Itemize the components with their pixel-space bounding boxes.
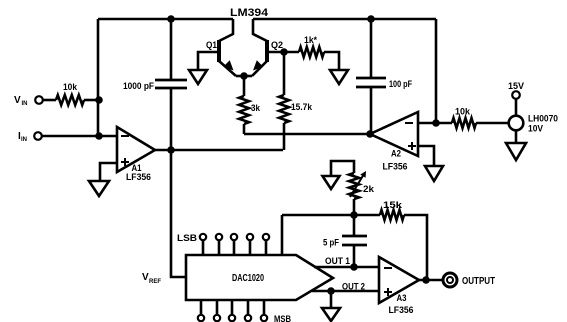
wire DAC OUT2 to A3 non-inverting input	[312, 290, 379, 293]
node A3 output dot	[422, 276, 430, 284]
wire down to DAC top edge	[281, 215, 284, 256]
capacitor 100 pF	[356, 19, 412, 134]
node OUT2 dot	[327, 287, 335, 295]
DAC U1 DAC1020	[186, 255, 333, 300]
wire feedback line to DAC Rfb	[282, 214, 380, 217]
label LSB	[177, 233, 198, 243]
svg-text:15k: 15k	[383, 200, 403, 210]
potentiometer 2k	[349, 171, 375, 215]
svg-text:Q2: Q2	[271, 40, 283, 50]
label LM394	[230, 7, 269, 19]
voltage reference LH0070	[509, 114, 558, 134]
wire A1 output	[155, 149, 283, 152]
wire IIN to A1 inverting input	[42, 135, 117, 138]
DAC digital input pins bottom MSB side	[198, 300, 267, 321]
node A2 inverting input dot	[432, 119, 440, 127]
wire A3 output	[419, 279, 442, 282]
DAC digital input pins top LSB side	[200, 234, 269, 255]
node VIN junction dot	[95, 96, 103, 104]
svg-text:LF356: LF356	[126, 172, 151, 182]
terminal 15V	[508, 81, 524, 99]
svg-text:LF356: LF356	[383, 162, 408, 172]
node A2 output dot	[366, 130, 374, 138]
label VREF	[142, 272, 161, 285]
svg-text:LM394: LM394	[230, 7, 269, 19]
wire 10k to node	[84, 99, 99, 102]
label MSB	[274, 314, 291, 322]
svg-text:10k: 10k	[455, 107, 471, 117]
svg-text:LSB: LSB	[177, 233, 198, 243]
label OUT 1	[325, 256, 350, 266]
svg-text:A2: A2	[391, 149, 401, 159]
resistor 15k	[380, 200, 404, 220]
svg-text:2k: 2k	[363, 184, 375, 194]
svg-text:15V: 15V	[508, 81, 524, 91]
svg-text:MSB: MSB	[274, 314, 291, 322]
wire OUT2 to ground	[330, 291, 333, 308]
node OUT1 dot	[350, 263, 358, 271]
node A1 output dot	[167, 146, 175, 154]
wire A2 non-inverting to ground	[418, 146, 434, 166]
wire 3k bottom to A2 output	[244, 133, 370, 136]
op-amp A3 LF356	[379, 257, 419, 315]
node junction dot top-right rail	[367, 15, 375, 23]
svg-text:DAC1020: DAC1020	[232, 273, 264, 284]
svg-text:V: V	[14, 95, 21, 106]
resistor 1k*	[299, 35, 324, 57]
wire A1 non-inverting input to ground	[100, 163, 117, 181]
svg-text:OUT 2: OUT 2	[342, 282, 365, 292]
resistor 3k	[239, 76, 261, 134]
node emitters junction dot	[240, 72, 248, 80]
resistor 10k reference	[452, 107, 476, 129]
op-amp A2 LF356	[370, 112, 418, 172]
capacitor 1000 pF	[123, 19, 187, 150]
node junction dot top-left rail	[167, 15, 175, 23]
resistor 10k input	[56, 82, 84, 105]
svg-text:OUT 1: OUT 1	[325, 256, 350, 266]
node input summing junction vertical	[97, 19, 100, 136]
svg-text:5 pF: 5 pF	[323, 238, 339, 248]
wire top-right rail	[253, 18, 436, 21]
ground A1 non-inverting input	[89, 181, 109, 196]
wire 10k to LH0070	[476, 122, 508, 125]
wire DAC OUT1 to A3 inverting input	[314, 266, 379, 269]
transistor Q1	[206, 19, 244, 76]
wire A2 inverting input	[418, 122, 452, 125]
node IIN junction dot	[95, 132, 103, 140]
svg-text:1000 pF: 1000 pF	[123, 81, 154, 91]
wire 2k top to ground	[331, 161, 354, 176]
op-amp A1 LF356	[117, 127, 155, 182]
wire right rail to A2 input	[435, 19, 438, 123]
svg-text:100 pF: 100 pF	[389, 79, 412, 89]
ground LH0070	[506, 143, 526, 160]
transistor Q2	[244, 19, 283, 76]
svg-text:Q1: Q1	[206, 40, 217, 50]
svg-text:10k: 10k	[63, 82, 78, 92]
svg-text:IN: IN	[21, 137, 27, 143]
ground Q1 base	[189, 70, 207, 84]
svg-text:A3: A3	[397, 293, 407, 303]
terminal VIN	[14, 95, 43, 107]
wire 1k* to ground	[324, 52, 339, 70]
svg-text:LF356: LF356	[389, 305, 414, 315]
terminal IIN	[18, 131, 42, 143]
wire LH0070 to ground	[515, 131, 518, 143]
svg-text:OUTPUT: OUTPUT	[462, 275, 495, 287]
svg-text:V: V	[142, 272, 149, 283]
ground A2 non-inverting input	[425, 166, 443, 181]
ground 1k*	[330, 70, 348, 84]
resistor 15.7k	[279, 52, 313, 150]
svg-text:1k*: 1k*	[304, 35, 317, 45]
svg-text:IN: IN	[22, 101, 28, 107]
wire top-left rail	[98, 18, 233, 21]
terminal OUTPUT	[443, 273, 495, 287]
ground OUT2	[322, 308, 340, 321]
node 2k bottom dot	[350, 211, 358, 219]
svg-text:3k: 3k	[251, 103, 261, 113]
wire VIN to R 10k	[43, 99, 56, 102]
svg-text:15.7k: 15.7k	[291, 102, 313, 112]
svg-text:10V: 10V	[528, 124, 543, 134]
wire VREF line	[171, 150, 186, 277]
wire Q2 base lead	[267, 51, 299, 54]
capacitor 5 pF	[323, 215, 367, 267]
wire 15k to A3 output	[404, 215, 427, 280]
svg-text:REF: REF	[149, 279, 161, 285]
wire Q1 base to ground	[198, 52, 219, 70]
node Q2 base dot	[280, 48, 288, 56]
ground 2k wiper	[323, 176, 340, 189]
wire LH0070 to 15V	[515, 99, 518, 115]
svg-text:LH0070: LH0070	[528, 114, 558, 124]
label OUT 2	[342, 282, 365, 292]
